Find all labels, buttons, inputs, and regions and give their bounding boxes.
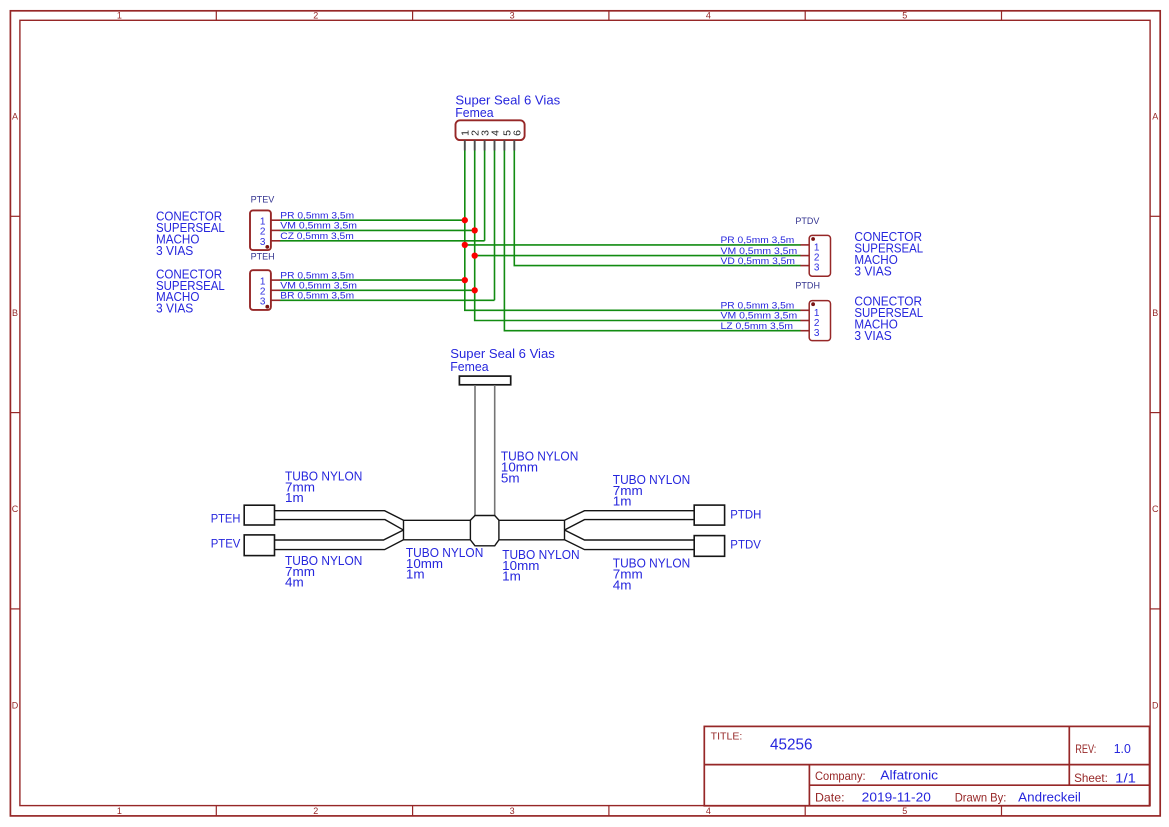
connector Super Seal 6 Vias body	[456, 120, 525, 140]
svg-text:PR 0,5mm 3,5m: PR 0,5mm 3,5m	[721, 301, 795, 311]
svg-text:3: 3	[510, 806, 515, 816]
frame row letters right	[1152, 112, 1159, 711]
svg-text:Femea: Femea	[450, 359, 489, 374]
frame row letters left	[12, 112, 19, 711]
svg-text:2019-11-20: 2019-11-20	[862, 790, 931, 805]
svg-text:1m: 1m	[285, 490, 304, 505]
text CONECTOR SUPERSEAL MACHO 3 VIAS (PTDV)	[854, 229, 923, 278]
svg-text:3 VIAS: 3 VIAS	[156, 243, 194, 258]
harness left lower branch tube 7mm to PTEV	[275, 530, 404, 550]
text CONECTOR SUPERSEAL MACHO 3 VIAS (PTEH)	[156, 266, 225, 315]
label TUBO NYLON 10mm 1m left	[406, 545, 483, 582]
PTEH pin numbers	[260, 276, 266, 307]
svg-text:BR 0,5mm 3,5m: BR 0,5mm 3,5m	[280, 291, 354, 301]
frame column numbers bottom	[117, 806, 907, 816]
label TUBO NYLON 7mm 1m right	[613, 472, 690, 509]
svg-text:Company:: Company:	[815, 769, 866, 783]
junction dot PR-PTEV	[462, 217, 468, 223]
svg-text:1m: 1m	[406, 567, 425, 582]
connector PTEV body	[250, 210, 271, 250]
svg-text:VD 0,5mm 3,5m: VD 0,5mm 3,5m	[721, 256, 796, 266]
svg-text:C: C	[12, 504, 19, 514]
wire PTEH pin3 BR	[280, 299, 495, 301]
svg-text:3 VIAS: 3 VIAS	[854, 263, 892, 278]
svg-text:5: 5	[902, 806, 907, 816]
svg-text:TITLE:: TITLE:	[711, 731, 743, 742]
harness PTDH connector body	[694, 505, 724, 525]
PTDH pin numbers	[814, 308, 820, 339]
svg-text:VM 0,5mm 3,5m: VM 0,5mm 3,5m	[280, 221, 357, 231]
svg-text:PTEV: PTEV	[211, 536, 241, 550]
frame left ruler ticks	[10, 216, 20, 609]
U1 pin stubs	[465, 140, 515, 150]
svg-text:PTEH: PTEH	[211, 512, 241, 526]
svg-text:2: 2	[260, 227, 266, 238]
svg-text:3 VIAS: 3 VIAS	[156, 301, 194, 316]
svg-text:PR 0,5mm 3,5m: PR 0,5mm 3,5m	[721, 235, 795, 245]
svg-text:PR 0,5mm 3,5m: PR 0,5mm 3,5m	[280, 270, 354, 280]
junction dot PR-PTEH	[462, 277, 468, 283]
wire PTEH pin1 PR	[280, 279, 465, 281]
harness PTEH connector body	[244, 505, 274, 525]
svg-text:3 VIAS: 3 VIAS	[854, 328, 892, 343]
harness center junction octagon	[470, 516, 499, 546]
PTDH pin stubs	[800, 310, 809, 330]
frame bottom ruler ticks	[216, 806, 1001, 816]
svg-text:A: A	[12, 112, 18, 122]
svg-text:5: 5	[902, 10, 907, 20]
harness PTEV connector body	[244, 535, 274, 556]
PTEV pin stubs	[271, 220, 280, 241]
harness PTDV connector body	[694, 536, 724, 557]
PTDV pin stubs	[800, 245, 809, 266]
svg-text:3: 3	[510, 10, 515, 20]
svg-text:2: 2	[313, 806, 318, 816]
label TUBO NYLON 10mm 5m	[501, 449, 578, 486]
svg-text:Andreckeil: Andreckeil	[1018, 790, 1081, 805]
PTDH polarity dot	[811, 302, 815, 306]
harness vertical tube 10mm	[475, 385, 495, 516]
connector PTDH body	[809, 301, 830, 341]
svg-text:PTEH: PTEH	[251, 252, 275, 263]
svg-text:5m: 5m	[501, 470, 520, 485]
wire to PTDV pin2 horizontal	[475, 255, 801, 257]
label Super Seal 6 Vias Femea (harness connector)	[450, 346, 555, 374]
svg-text:4: 4	[706, 10, 711, 20]
PTEH polarity dot	[265, 305, 269, 309]
wire PTEV pin3 CZ	[280, 240, 485, 242]
harness left upper branch tube 7mm to PTEH	[275, 511, 404, 530]
svg-text:3: 3	[260, 237, 266, 248]
svg-text:1/1: 1/1	[1115, 771, 1136, 786]
svg-text:PTDH: PTDH	[730, 508, 761, 522]
svg-text:Date:: Date:	[815, 791, 845, 805]
svg-text:3: 3	[814, 263, 820, 274]
svg-text:VM 0,5mm 3,5m: VM 0,5mm 3,5m	[280, 281, 357, 291]
svg-text:PTDH: PTDH	[795, 280, 820, 291]
svg-text:1.0: 1.0	[1114, 741, 1131, 756]
svg-text:PR 0,5mm 3,5m: PR 0,5mm 3,5m	[280, 210, 354, 220]
svg-text:1: 1	[117, 806, 122, 816]
label TUBO NYLON 7mm 4m right	[613, 556, 690, 593]
svg-text:45256: 45256	[770, 736, 813, 753]
svg-text:Femea: Femea	[455, 105, 494, 120]
svg-text:4m: 4m	[613, 577, 632, 592]
harness right upper branch tube 7mm to PTDH	[565, 511, 695, 530]
junction dot PR-PTDV	[462, 242, 468, 248]
svg-text:D: D	[12, 700, 19, 710]
label TUBO NYLON 7mm 1m left	[285, 468, 362, 505]
label TUBO NYLON 7mm 4m left	[285, 553, 362, 590]
wire net LZ from U1 pin5 down then right to PTDH pin3	[504, 151, 800, 331]
wire PTEH pin2 VM	[280, 289, 475, 291]
PTEH pin stubs	[271, 280, 280, 300]
svg-text:B: B	[1152, 308, 1158, 318]
frame right ruler ticks	[1150, 216, 1160, 609]
svg-text:6: 6	[512, 130, 524, 136]
svg-text:VM 0,5mm 3,5m: VM 0,5mm 3,5m	[721, 311, 798, 321]
svg-text:PTDV: PTDV	[795, 216, 820, 227]
junction dot VM-PTEV	[472, 227, 478, 233]
harness left tube 10mm	[404, 520, 471, 540]
wire PTEV pin1 PR	[280, 219, 465, 221]
connector PTEH body	[250, 270, 271, 310]
svg-text:1m: 1m	[502, 569, 521, 584]
svg-text:D: D	[1152, 700, 1159, 710]
svg-text:Alfatronic: Alfatronic	[880, 768, 938, 783]
svg-text:CZ 0,5mm 3,5m: CZ 0,5mm 3,5m	[280, 231, 354, 241]
svg-text:4: 4	[489, 130, 501, 136]
harness top connector body	[459, 376, 510, 385]
wire net BR from U1 pin4 down	[494, 151, 496, 301]
PTEV polarity dot	[265, 245, 269, 249]
svg-text:C: C	[1152, 504, 1159, 514]
wire net PR from U1 pin1 down then right to PTDH pin1	[465, 151, 801, 311]
wire net VM from U1 pin2 down then right to PTDH pin2	[475, 151, 801, 321]
svg-text:LZ 0,5mm 3,5m: LZ 0,5mm 3,5m	[721, 321, 794, 331]
svg-text:1: 1	[117, 10, 122, 20]
wire PTEV pin2 VM	[280, 229, 475, 231]
title block outline	[704, 726, 1149, 805]
svg-text:3: 3	[260, 297, 266, 308]
svg-text:A: A	[1152, 112, 1158, 122]
PTDV polarity dot	[811, 237, 815, 241]
svg-text:REV:: REV:	[1075, 742, 1096, 756]
text CONECTOR SUPERSEAL MACHO 3 VIAS (PTDH)	[854, 294, 923, 343]
svg-text:3: 3	[814, 328, 820, 339]
junction dot VM-PTEH	[472, 287, 478, 293]
label Super Seal 6 Vias Femea (schematic connector)	[455, 92, 560, 120]
svg-text:B: B	[12, 308, 18, 318]
svg-text:1m: 1m	[613, 494, 632, 509]
svg-text:2: 2	[313, 10, 318, 20]
harness right tube 10mm	[499, 520, 565, 540]
svg-text:PTEV: PTEV	[251, 194, 275, 205]
PTDV pin numbers	[814, 242, 820, 273]
PTEV pin numbers	[260, 217, 266, 249]
svg-text:VM 0,5mm 3,5m: VM 0,5mm 3,5m	[721, 246, 798, 256]
text CONECTOR SUPERSEAL MACHO 3 VIAS (PTEV)	[156, 209, 225, 258]
svg-text:Sheet:: Sheet:	[1074, 771, 1108, 785]
frame column numbers top	[117, 10, 907, 20]
connector PTDV body	[809, 235, 830, 276]
svg-text:4: 4	[706, 806, 711, 816]
harness right lower branch tube 7mm to PTDV	[565, 530, 695, 550]
wire net VD from U1 pin6 down then right to PTDV pin3	[514, 151, 800, 266]
svg-text:4m: 4m	[285, 575, 304, 590]
svg-text:Drawn By:: Drawn By:	[955, 791, 1007, 805]
frame top ruler ticks	[216, 11, 1001, 20]
wire net CZ from U1 pin3 down	[484, 151, 486, 241]
svg-text:PTDV: PTDV	[730, 537, 761, 551]
junction dot VM-PTDV	[472, 252, 478, 258]
wire to PTDV pin1 horizontal	[465, 244, 801, 246]
label TUBO NYLON 10mm 1m right	[502, 547, 579, 584]
